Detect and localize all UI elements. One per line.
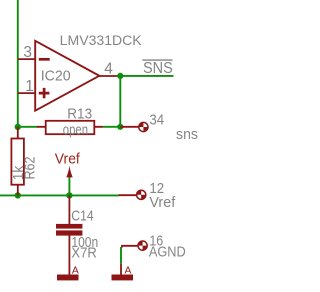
wire bottom rail Vref net xyxy=(0,194,119,196)
resistor R62 body xyxy=(11,127,24,195)
capacitor C14 value 100n xyxy=(71,234,98,251)
net name Vref (gray) xyxy=(149,194,176,211)
svg-text:Vref: Vref xyxy=(55,151,81,168)
ground A label right xyxy=(125,266,132,277)
svg-text:C14: C14 xyxy=(71,208,93,225)
red stub rail to pin 12 circle xyxy=(119,194,137,196)
plus symbol non-inverting input xyxy=(39,88,50,98)
pin number 16 xyxy=(149,233,163,250)
junction dot rail / R62 xyxy=(15,192,21,198)
junction dot at pin4 output xyxy=(117,73,123,79)
svg-text:R13: R13 xyxy=(67,105,92,122)
junction dot rail / Vref supply and C14 xyxy=(66,192,72,198)
svg-text:4: 4 xyxy=(104,61,113,78)
svg-text:A: A xyxy=(125,266,132,277)
ground symbol AGND under C14 xyxy=(57,275,79,281)
pin 3 line (inverting input) xyxy=(18,58,35,60)
pin number 12 xyxy=(149,180,164,197)
junction dot at R13 right / pin 34 xyxy=(117,124,123,130)
pin ref circle 12 xyxy=(137,190,146,199)
supply label Vref (red) xyxy=(55,151,81,168)
svg-text:SNS: SNS xyxy=(143,60,173,77)
capacitor C14 value X7R xyxy=(71,244,96,261)
pin number 4 xyxy=(104,61,113,78)
pin ref circle 34 xyxy=(139,122,148,131)
wire net SNS horizontal from pin 4 xyxy=(120,75,173,77)
svg-text:A: A xyxy=(72,266,79,277)
svg-text:IC20: IC20 xyxy=(41,67,71,84)
svg-text:R62: R62 xyxy=(21,157,38,180)
wire Vref supply stem xyxy=(68,177,70,195)
svg-text:sns: sns xyxy=(176,126,198,143)
supply symbol Vref arrow xyxy=(66,166,72,178)
capacitor C14 plates xyxy=(56,224,82,236)
wire red AGND vertical to ground xyxy=(120,264,122,275)
net name AGND xyxy=(149,244,186,261)
pin 4 output line xyxy=(99,75,120,77)
ground A label under C14 xyxy=(72,266,79,277)
wire AGND pin vertical green segment xyxy=(120,247,122,264)
net label SNS with overline xyxy=(142,60,173,77)
svg-text:AGND: AGND xyxy=(149,244,186,261)
junction dot at inputs/R13 row xyxy=(15,124,21,130)
pin ref circle 16 xyxy=(138,241,147,250)
svg-text:open: open xyxy=(63,122,88,139)
pin 1 line (non-inverting input) xyxy=(18,92,35,94)
svg-text:34: 34 xyxy=(149,112,164,129)
wire red pin 16 to corner xyxy=(122,246,138,248)
pin number 34 xyxy=(149,112,164,129)
resistor R13 value open xyxy=(63,122,88,139)
wire red rail to C14 top plate xyxy=(68,195,70,224)
net name sns xyxy=(176,126,198,143)
resistor R13 name label xyxy=(67,105,92,122)
ground symbol AGND right xyxy=(112,275,134,281)
minus symbol inverting input xyxy=(39,58,50,61)
op-amp reference IC20 xyxy=(41,67,71,84)
pin number 3 xyxy=(23,44,32,61)
pin number 1 xyxy=(25,78,34,95)
svg-text:X7R: X7R xyxy=(71,244,96,261)
resistor R62 name label (rotated) xyxy=(21,157,38,180)
wire red stub to pin 34 circle xyxy=(120,126,138,128)
resistor R13 body xyxy=(37,121,103,134)
wire net left vertical (to IC20 inputs) xyxy=(17,0,19,127)
op-amp part value LMV331DCK xyxy=(60,33,142,48)
capacitor C14 name xyxy=(71,208,93,225)
svg-text:3: 3 xyxy=(23,44,32,61)
wire net vertical pin4 to R13 row xyxy=(119,76,121,127)
resistor R62 value 1k (rotated) xyxy=(10,165,27,180)
svg-text:Vref: Vref xyxy=(149,194,176,211)
wire net R13 right segment xyxy=(103,126,120,128)
svg-text:1: 1 xyxy=(25,78,34,95)
op-amp IC20 triangle xyxy=(35,41,99,111)
wire net R13 left segment xyxy=(18,126,38,128)
wire red C14 bottom to ground xyxy=(68,236,70,275)
svg-text:LMV331DCK: LMV331DCK xyxy=(60,33,142,48)
